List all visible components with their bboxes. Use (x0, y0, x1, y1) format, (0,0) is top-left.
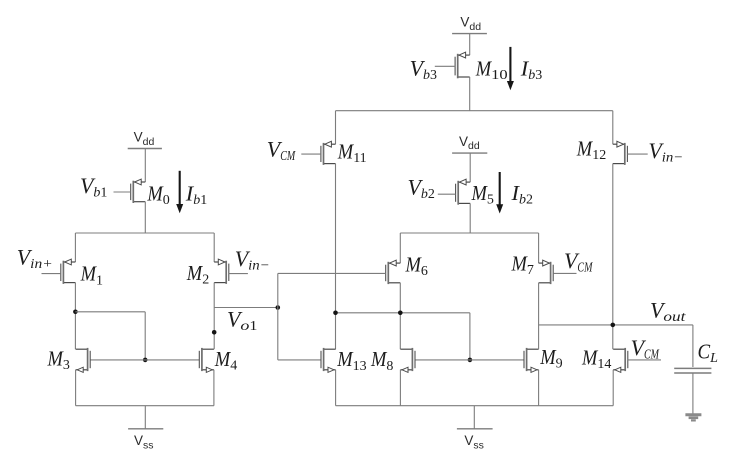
wire Vo1 vertical distribution (277, 273, 279, 360)
wire link down to M8-M9 gate line (469, 313, 471, 360)
transistor M0 (PMOS tail current source, stage 1) (114, 179, 146, 203)
wire Vdd to M10 source (469, 34, 471, 56)
transistor M8 (NMOS) (400, 348, 415, 373)
wire rail to M11 source (335, 111, 337, 145)
wire mid rail to M7 source (538, 233, 540, 263)
transistor M1 (PMOS input, Vin+) (42, 259, 76, 284)
transistor M4 (NMOS mirror output side) (199, 348, 214, 373)
wire mid rail to M6 source (399, 233, 401, 263)
transistor M7 (PMOS, VCM gate) (539, 260, 577, 284)
wire M4 source to Vss rail (213, 370, 215, 406)
ground symbol (685, 415, 701, 421)
transistor M12 (PMOS, Vin- input) (613, 141, 648, 165)
wire M8 source to Vss rail (399, 370, 401, 406)
current arrow Ib3 (507, 47, 514, 90)
wire M8-M9 common gate line (415, 359, 524, 361)
transistor M6 (PMOS, gate from Vo1) (386, 260, 401, 284)
wire M10 drain to top rail (469, 77, 471, 111)
node junction M1 drain / mirror gate tap (73, 310, 78, 315)
transistor M9 (NMOS) (524, 348, 539, 373)
power Vdd (stage 1) bar (128, 148, 162, 150)
wire stage-2 top source rail (336, 110, 613, 112)
wire M6 drain down (399, 283, 401, 349)
wire Vss stub (stage 1) (144, 406, 146, 429)
wire M14 source to Vss rail (612, 370, 614, 406)
wire Vss stub (stage 2) (473, 406, 475, 429)
wire Vo1 to M13 gate (278, 359, 321, 361)
transistor M10 (PMOS current source Ib3) (435, 52, 470, 78)
node dot on M2 drain wire (212, 330, 217, 335)
wire junction to mirror gate (horizontal) (75, 311, 145, 313)
node junction on M8-M9 gate line (468, 358, 473, 363)
wire rail to M1 source (74, 233, 76, 262)
wire node Vo1 to second stage (214, 307, 278, 309)
wire M0 drain to stage-1 source rail (144, 202, 146, 233)
wire rail to M2 source (213, 233, 215, 262)
node junction on M3-M4 gate line (143, 358, 148, 363)
power Vdd (M10) bar (452, 33, 487, 35)
wire Vdd to M5 source (469, 153, 471, 182)
wire stage-2 mid source rail (M6-M7) (400, 232, 538, 234)
wire M11 drain down to M13 drain (335, 164, 337, 350)
wire node Vout horizontal (539, 324, 693, 326)
wire stage-1 source rail (75, 232, 214, 234)
node junction on M11 drain line (333, 311, 338, 316)
wire Vout to capacitor CL (692, 325, 694, 367)
current arrow Ib1 (176, 171, 183, 213)
node junction on M6 drain line (398, 311, 403, 316)
power Vss (stage 1) bar (128, 428, 163, 430)
wire M13 source to Vss rail (335, 370, 337, 406)
wire M7 drain to M9 drain (538, 283, 540, 349)
power Vdd (M5) bar (452, 152, 487, 154)
capacitor CL bottom plate (674, 372, 711, 374)
node Vo1 junction (276, 305, 281, 310)
wire M12 drain down to M14 drain (612, 164, 614, 350)
wire M9 source to Vss rail (538, 370, 540, 406)
wire M3 source to Vss rail (75, 370, 77, 406)
wire M5 drain to mid source rail (469, 203, 471, 233)
wire link M11 drain to M6 drain to gates (horizontal) (336, 312, 470, 314)
wire M1 drain down to M3 drain (74, 283, 76, 350)
wire rail to M12 source (612, 111, 614, 145)
power Vss (stage 2) bar (457, 428, 493, 430)
wire stage-2 Vss rail (336, 405, 614, 407)
transistor M2 (PMOS input, Vin-) (214, 259, 248, 284)
transistor M5 (PMOS current source Ib2) (438, 179, 470, 205)
wire CL to ground (692, 373, 694, 414)
wire stage-1 Vss rail (76, 405, 214, 407)
capacitor CL top plate (674, 367, 711, 369)
wire M3-M4 common gate line (90, 359, 199, 361)
transistor M14 (NMOS, VCM gate) (613, 348, 661, 373)
transistor M3 (NMOS mirror, diode side) (76, 348, 91, 373)
transistor M13 (NMOS bottom left) (321, 348, 336, 373)
current arrow Ib2 (496, 172, 503, 214)
wire Vdd to M0 source (144, 149, 146, 183)
wire M2 drain down to M4 drain (213, 283, 215, 350)
node Vout junction with M12-M14 branch (611, 323, 616, 328)
wire Vo1 to M6 gate (278, 272, 386, 274)
wire junction to mirror gate (vertical) (144, 312, 146, 360)
transistor M11 (PMOS, VCM input) (301, 141, 335, 165)
